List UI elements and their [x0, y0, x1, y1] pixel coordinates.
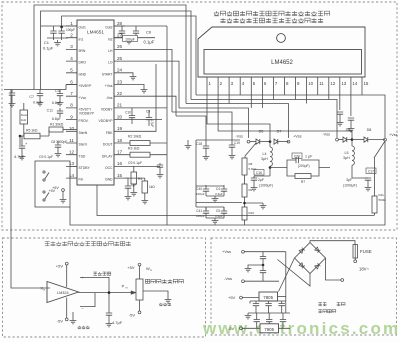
svg-text:17: 17 [117, 150, 123, 155]
wire C17 lead [367, 180, 369, 185]
wire bus 2 [41, 11, 191, 100]
wire -Vss rail [244, 280, 279, 282]
resistor R8 box [242, 158, 247, 175]
capacitor C11 plates [57, 111, 63, 113]
wire pot bottom lead [139, 300, 141, 311]
svg-text:1kΩ: 1kΩ [149, 185, 155, 189]
IC U2 LM4652 package outline [198, 27, 365, 77]
wire junction to L5 [351, 140, 353, 146]
bridge diode D1 [299, 248, 305, 254]
svg-text:0.1μF: 0.1μF [33, 101, 43, 105]
wire U2 pin7 pin8 drops [273, 88, 284, 100]
capacitor C15 plates [125, 186, 131, 188]
svg-text:C16: C16 [256, 171, 262, 175]
wire to gnd stub [248, 265, 263, 266]
bridge diode D3 [299, 263, 305, 269]
capacitor pair a [203, 211, 209, 213]
capacitor pair a [203, 189, 209, 191]
wire diagonal bridge bottom [278, 260, 311, 287]
svg-text:(1000μF): (1000μF) [343, 184, 357, 188]
svg-text:R10: R10 [249, 211, 255, 215]
terminal +Vss right [384, 138, 387, 141]
svg-text:DFLAY: DFLAY [102, 154, 113, 158]
resistor R4 box [131, 172, 137, 184]
resistor R11 box [372, 196, 377, 213]
ground pair [212, 196, 219, 202]
diode D8 [364, 137, 368, 142]
junction left channel [269, 140, 272, 143]
wire bus line y95 to +Vss right [196, 95, 385, 138]
wire chain mid1 [244, 175, 246, 184]
wire rail bottom outer [70, 141, 385, 225]
ground below +5V [60, 197, 67, 203]
wire R5 leads [20, 135, 49, 137]
wire pin15 to R6 [125, 177, 145, 179]
svg-text:18: 18 [117, 138, 123, 143]
wire D5 to junction [260, 141, 270, 143]
svg-text:9RN: 9RN [79, 49, 86, 53]
svg-text:22: 22 [117, 91, 123, 96]
wire C11 leads [59, 108, 61, 117]
section title line 1 [214, 11, 330, 16]
junction output cap [108, 291, 111, 294]
svg-text:C20: C20 [294, 154, 300, 158]
capacitor C19 plates [229, 145, 235, 147]
svg-text:7905: 7905 [264, 327, 274, 332]
terminal -5V pot [138, 311, 141, 314]
svg-text:5: 5 [70, 68, 73, 73]
terminal +5V pot [138, 263, 141, 266]
bridge rectifier diamond [295, 243, 326, 274]
inductor L4 [270, 147, 272, 166]
svg-text:In1: In1 [79, 37, 84, 41]
svg-text:C8: C8 [146, 110, 150, 114]
standby/mute switch box [35, 161, 70, 207]
svg-text:(200μF): (200μF) [298, 164, 310, 168]
svg-text:560Ω: 560Ω [379, 198, 387, 202]
svg-text:19: 19 [117, 126, 123, 131]
svg-text:LO: LO [108, 61, 113, 65]
wire bus 3 [62, 16, 196, 95]
svg-text:1kΩ: 1kΩ [21, 118, 26, 122]
resistor R3 box [130, 152, 150, 157]
wire chain bottom [244, 220, 246, 225]
capacitor C4 plates [9, 93, 15, 95]
svg-text:Rosc: Rosc [21, 113, 28, 117]
svg-text:2μF: 2μF [258, 178, 264, 182]
wire C8 leads [57, 141, 59, 151]
capacitor C20 plates (horizontal lead) [296, 157, 299, 164]
terminal +5V op-amp [65, 262, 68, 265]
wire C5 C6 common [122, 37, 136, 39]
svg-text:D6: D6 [346, 128, 351, 132]
svg-text:R4: R4 [138, 177, 142, 181]
svg-text:LM324: LM324 [57, 291, 69, 295]
wire mid horizontal y202 [196, 202, 242, 204]
svg-text:4.7μF: 4.7μF [150, 119, 154, 127]
wire L5 out [352, 165, 368, 178]
svg-text:3μF: 3μF [346, 178, 352, 182]
wire RC loop [287, 160, 330, 176]
ground C23 [106, 321, 113, 327]
junction right channel [351, 138, 354, 141]
svg-text:+5VBYP: +5VBYP [79, 84, 93, 88]
wire mid rail [196, 139, 240, 141]
wire +5V to 7805 [242, 297, 259, 299]
svg-text:TSD: TSD [79, 154, 86, 158]
label center-tap pot [145, 279, 183, 283]
dashed border of power-supply section box [211, 238, 397, 335]
wire pin21 to vertical [125, 107, 167, 109]
capacitor C8 plates [55, 145, 61, 147]
wire D6 to junction [347, 139, 352, 141]
wire pairs top feed [196, 186, 224, 211]
svg-text:11: 11 [319, 81, 324, 86]
wire bridge right to AC2 [326, 258, 342, 280]
svg-text:10: 10 [308, 81, 313, 86]
svg-text:Out2: Out2 [105, 26, 112, 30]
capacitor C25 plates [260, 271, 266, 273]
wire bus line y108 to -Vss left [179, 108, 249, 138]
svg-text:R9: R9 [249, 188, 253, 192]
svg-text:-5V: -5V [129, 313, 136, 318]
svg-text:21: 21 [117, 103, 123, 108]
svg-text:2: 2 [70, 33, 73, 38]
svg-text:4: 4 [70, 56, 73, 61]
svg-text:LM4651: LM4651 [87, 30, 104, 35]
wire diagonal right channel [374, 141, 385, 158]
svg-text:(1000μF): (1000μF) [259, 184, 273, 188]
svg-text:13: 13 [341, 81, 346, 86]
svg-text:START: START [102, 72, 113, 76]
IC U1 LM4651 left pin stubs 1-14 [66, 26, 77, 178]
wire reg cap b leads [282, 313, 284, 328]
wire ref gnd stub [72, 312, 74, 318]
svg-text:STDBY: STDBY [79, 166, 91, 170]
svg-text:+5V: +5V [56, 264, 64, 269]
ground pin24 [130, 74, 137, 80]
potentiometer RP1 body [136, 279, 143, 300]
svg-text:C7: C7 [29, 95, 34, 99]
capacitor C12 4.7uF plates [19, 146, 25, 148]
svg-text:C19: C19 [234, 141, 240, 145]
ground C19 [229, 153, 236, 159]
svg-text:-Vss: -Vss [235, 135, 243, 139]
ground C16 [251, 185, 258, 191]
wire diagonal to R chain [245, 143, 256, 156]
label aux circuit line2 [318, 310, 336, 313]
ground mid [245, 266, 252, 272]
wire cap b leads [223, 207, 225, 218]
svg-text:4.7μF: 4.7μF [14, 154, 25, 159]
svg-text:14: 14 [352, 81, 357, 86]
wire C13 leads [148, 110, 150, 126]
svg-text:FUSE: FUSE [360, 249, 372, 254]
IC U2 pin stubs 1-15 [207, 77, 362, 88]
label reference line [159, 303, 171, 306]
label volume adjust [93, 272, 111, 275]
svg-text:Fin: Fin [79, 178, 84, 182]
svg-text:6.8μF: 6.8μF [52, 101, 61, 105]
svg-text:+5V: +5V [228, 295, 236, 300]
capacitor reg row1 [265, 304, 271, 306]
inductor L5 [352, 146, 354, 165]
capacitor C13 plates [146, 118, 152, 120]
svg-text:1: 1 [70, 21, 73, 26]
wire rail left down [195, 140, 197, 186]
svg-text:R1 30kΩ: R1 30kΩ [50, 123, 64, 127]
wire U2 pin3 drop [228, 88, 230, 104]
wire bus line y112 to C19 [172, 112, 232, 140]
capacitor C10 plates [129, 116, 135, 118]
svg-text:C9 0.1μF: C9 0.1μF [128, 161, 142, 165]
ground pin23 [141, 87, 148, 93]
wire C7 leads [39, 90, 41, 101]
bridge diode D2 [315, 247, 321, 253]
wire 7805 right [278, 296, 286, 298]
label aux circuit line1 [318, 303, 345, 306]
wire left +V rail [4, 85, 66, 90]
capacitor reg row1 [253, 304, 259, 306]
svg-text:D8: D8 [367, 128, 372, 132]
capacitor C2 plates [50, 31, 56, 33]
svg-text:FBK: FBK [106, 131, 113, 135]
svg-text:8: 8 [70, 103, 73, 108]
svg-text:C18: C18 [196, 142, 202, 146]
wire gnd stub mid [187, 140, 189, 143]
wire R4 leads [133, 166, 135, 190]
svg-text:C11: C11 [47, 109, 53, 113]
wire C10 leads [131, 108, 133, 124]
terminal +Vss supply [242, 250, 245, 253]
ground pin1 caps [54, 40, 61, 46]
svg-text:R11: R11 [379, 193, 385, 197]
capacitor pair b [221, 189, 227, 191]
wire reg cap leads [268, 301, 270, 313]
wire to D5 [250, 141, 256, 143]
capacitor pair b [221, 211, 227, 213]
svg-text:11: 11 [69, 138, 74, 143]
diode D7 [274, 139, 278, 144]
resistor R1 box [49, 127, 63, 132]
wire op-amp -5V lead [66, 298, 68, 319]
wire C21 lead [339, 114, 341, 120]
svg-text:5.6kΩ: 5.6kΩ [249, 167, 258, 171]
svg-text:D7: D7 [277, 130, 282, 134]
svg-text:23: 23 [117, 79, 123, 84]
wire +Vss rail [244, 251, 285, 253]
svg-text:9: 9 [70, 114, 73, 119]
svg-text:25: 25 [117, 56, 123, 61]
junction chain [243, 202, 246, 205]
svg-text:4.7μF: 4.7μF [112, 320, 123, 325]
svg-text:SterN: SterN [79, 131, 88, 135]
dashed border of volume-input section box [3, 238, 206, 337]
svg-text:100μF: 100μF [125, 37, 135, 41]
svg-text:3μH: 3μH [261, 157, 268, 161]
svg-text:+Vss: +Vss [105, 84, 113, 88]
svg-text:OCC: OCC [105, 166, 113, 170]
wire C12 leads [21, 136, 23, 154]
ground C18 [203, 154, 210, 160]
svg-text:LH: LH [108, 49, 113, 53]
wire bus line y103 to +Vss left [186, 104, 289, 139]
terminal +Vss left [287, 140, 290, 143]
wire C4 leads [11, 90, 13, 102]
ground C4 [9, 101, 16, 107]
svg-text:C10: C10 [125, 111, 131, 115]
wire to C16 [254, 176, 270, 178]
capacitor C3 plates [57, 94, 63, 96]
wire pin25 LO to bus [125, 61, 179, 108]
terminal -Vss right [336, 138, 339, 141]
capacitor reg row2 [266, 320, 272, 322]
wire U2 pin9 pin10 drops [296, 88, 307, 104]
capacitor C7 plates [37, 94, 43, 96]
svg-text:-5V: -5V [228, 326, 235, 331]
wire C22 lead [350, 120, 352, 126]
wire R11 leads [374, 158, 376, 216]
switch S1 [43, 171, 49, 181]
svg-text:C41: C41 [196, 209, 202, 213]
svg-text:C4: C4 [216, 187, 220, 191]
wire rail -Vss bottom [97, 185, 374, 216]
wire bridge top to fuse [310, 241, 355, 245]
wire cap b leads [223, 185, 225, 196]
IC U1 LM4651 right pin stubs 28-15 [114, 26, 125, 178]
ground C3 [57, 100, 64, 106]
ground C17 [365, 185, 372, 191]
svg-text:0.1μF: 0.1μF [144, 40, 155, 45]
wire reg cap leads [281, 301, 283, 313]
junction pin1 caps [60, 26, 63, 29]
wire pair common [206, 195, 224, 197]
svg-text:C1: C1 [44, 40, 50, 45]
wire C23 lead [108, 315, 110, 321]
wire op-amp +5V lead [66, 265, 68, 287]
wire D8 to +Vss [368, 139, 385, 141]
ground R6 [141, 198, 148, 204]
svg-text:C8 3300pF: C8 3300pF [51, 140, 67, 144]
svg-text:+Vcc: +Vcc [79, 96, 87, 100]
boxed label C17 [366, 168, 376, 174]
svg-text:7: 7 [70, 91, 73, 96]
ground C7 [37, 100, 44, 106]
resistor R5 box [24, 133, 40, 139]
svg-text:6.8μF: 6.8μF [52, 117, 61, 121]
wire U2 pin2 to right channel [218, 88, 352, 140]
capacitor C14 plates [157, 165, 163, 167]
wire C3 leads [59, 90, 61, 101]
wire cap a leads [205, 185, 207, 196]
wire terminal to gnd [62, 191, 64, 197]
switch S2 [43, 191, 49, 201]
wire pin24 START [125, 73, 133, 74]
wire noninv input line [80, 277, 109, 313]
svg-text:GND: GND [105, 178, 113, 182]
svg-text:R2 10kΩ: R2 10kΩ [128, 135, 142, 139]
ground mid rail [185, 143, 192, 149]
svg-text:C6: C6 [146, 30, 152, 35]
wire U2 pin11 pin12 drops [318, 88, 329, 100]
wire cap a leads [205, 207, 207, 218]
wire pin23 +Vss stub [125, 85, 144, 88]
terminal -Vss supply [242, 280, 245, 283]
wire R2 leads [125, 142, 167, 144]
wire cap row rails [248, 301, 290, 313]
capacitor C22 plates [348, 118, 354, 120]
wire C25 leads [262, 265, 264, 281]
junction R5 [19, 135, 22, 138]
wire pin27 In2 [114, 37, 155, 39]
wire caps common to gnd [47, 38, 68, 40]
ground C12 [19, 154, 26, 160]
svg-text:16: 16 [117, 161, 123, 166]
junction L4 out [269, 166, 272, 169]
diode D5 [256, 139, 260, 144]
wire junction to D8 [352, 139, 364, 141]
svg-text:0.1μF: 0.1μF [43, 46, 54, 51]
svg-text:+Vss: +Vss [222, 249, 231, 254]
wire chain mid2 [244, 197, 246, 207]
wire C18 leads [205, 140, 207, 154]
terminal AC2 [341, 279, 344, 282]
svg-text:C40: C40 [196, 187, 202, 191]
svg-text:R7: R7 [301, 180, 305, 184]
svg-text:-Vss: -Vss [106, 96, 113, 100]
regulator 7805 box [259, 292, 278, 301]
wire pin22 to bus [125, 96, 176, 116]
capacitor C17 plates [365, 178, 371, 180]
svg-text:DOUT: DOUT [103, 143, 113, 147]
svg-text:C17: C17 [368, 169, 374, 173]
svg-text:D5: D5 [259, 130, 264, 134]
wire U2 pin4 drop [239, 88, 241, 95]
boxed label C16 [254, 170, 264, 176]
resistor R2 box [130, 141, 150, 146]
svg-text:C3: C3 [55, 89, 60, 93]
wire reg cap leads [255, 301, 257, 313]
wire pot wiper out [143, 291, 168, 297]
wire long vertical pin28 net [166, 26, 168, 216]
svg-text:-Vss: -Vss [224, 276, 232, 281]
IC U1 LM4651 body [77, 20, 114, 185]
svg-text:DRO: DRO [79, 61, 87, 65]
svg-text:-5V: -5V [57, 319, 64, 324]
IC U2 LM4652 body rect [204, 50, 362, 75]
svg-text:1 μF: 1 μF [305, 155, 313, 159]
wire C19 leads [231, 140, 233, 153]
svg-text:26: 26 [117, 44, 123, 49]
svg-text:VDDBYP: VDDBYP [99, 119, 114, 123]
svg-text:3.3μF: 3.3μF [215, 192, 223, 196]
dashed outer border of driver circuit section [2, 2, 397, 230]
wire R6 leads [144, 178, 146, 198]
IC U2 mounting hole [277, 34, 286, 43]
svg-text:24: 24 [117, 68, 123, 73]
wire op-amp output [79, 292, 137, 294]
svg-text:12: 12 [69, 150, 75, 155]
svg-text:28: 28 [117, 21, 123, 26]
wire switch box to pins 13 14 [70, 166, 77, 178]
svg-text:R8: R8 [249, 162, 253, 166]
ground pair [212, 218, 219, 224]
label reference ground [78, 326, 90, 329]
capacitor C21 plates [337, 112, 343, 114]
capacitor C16 plates [251, 178, 257, 180]
wire C5 leads [121, 26, 123, 38]
ground C14 [157, 172, 164, 178]
